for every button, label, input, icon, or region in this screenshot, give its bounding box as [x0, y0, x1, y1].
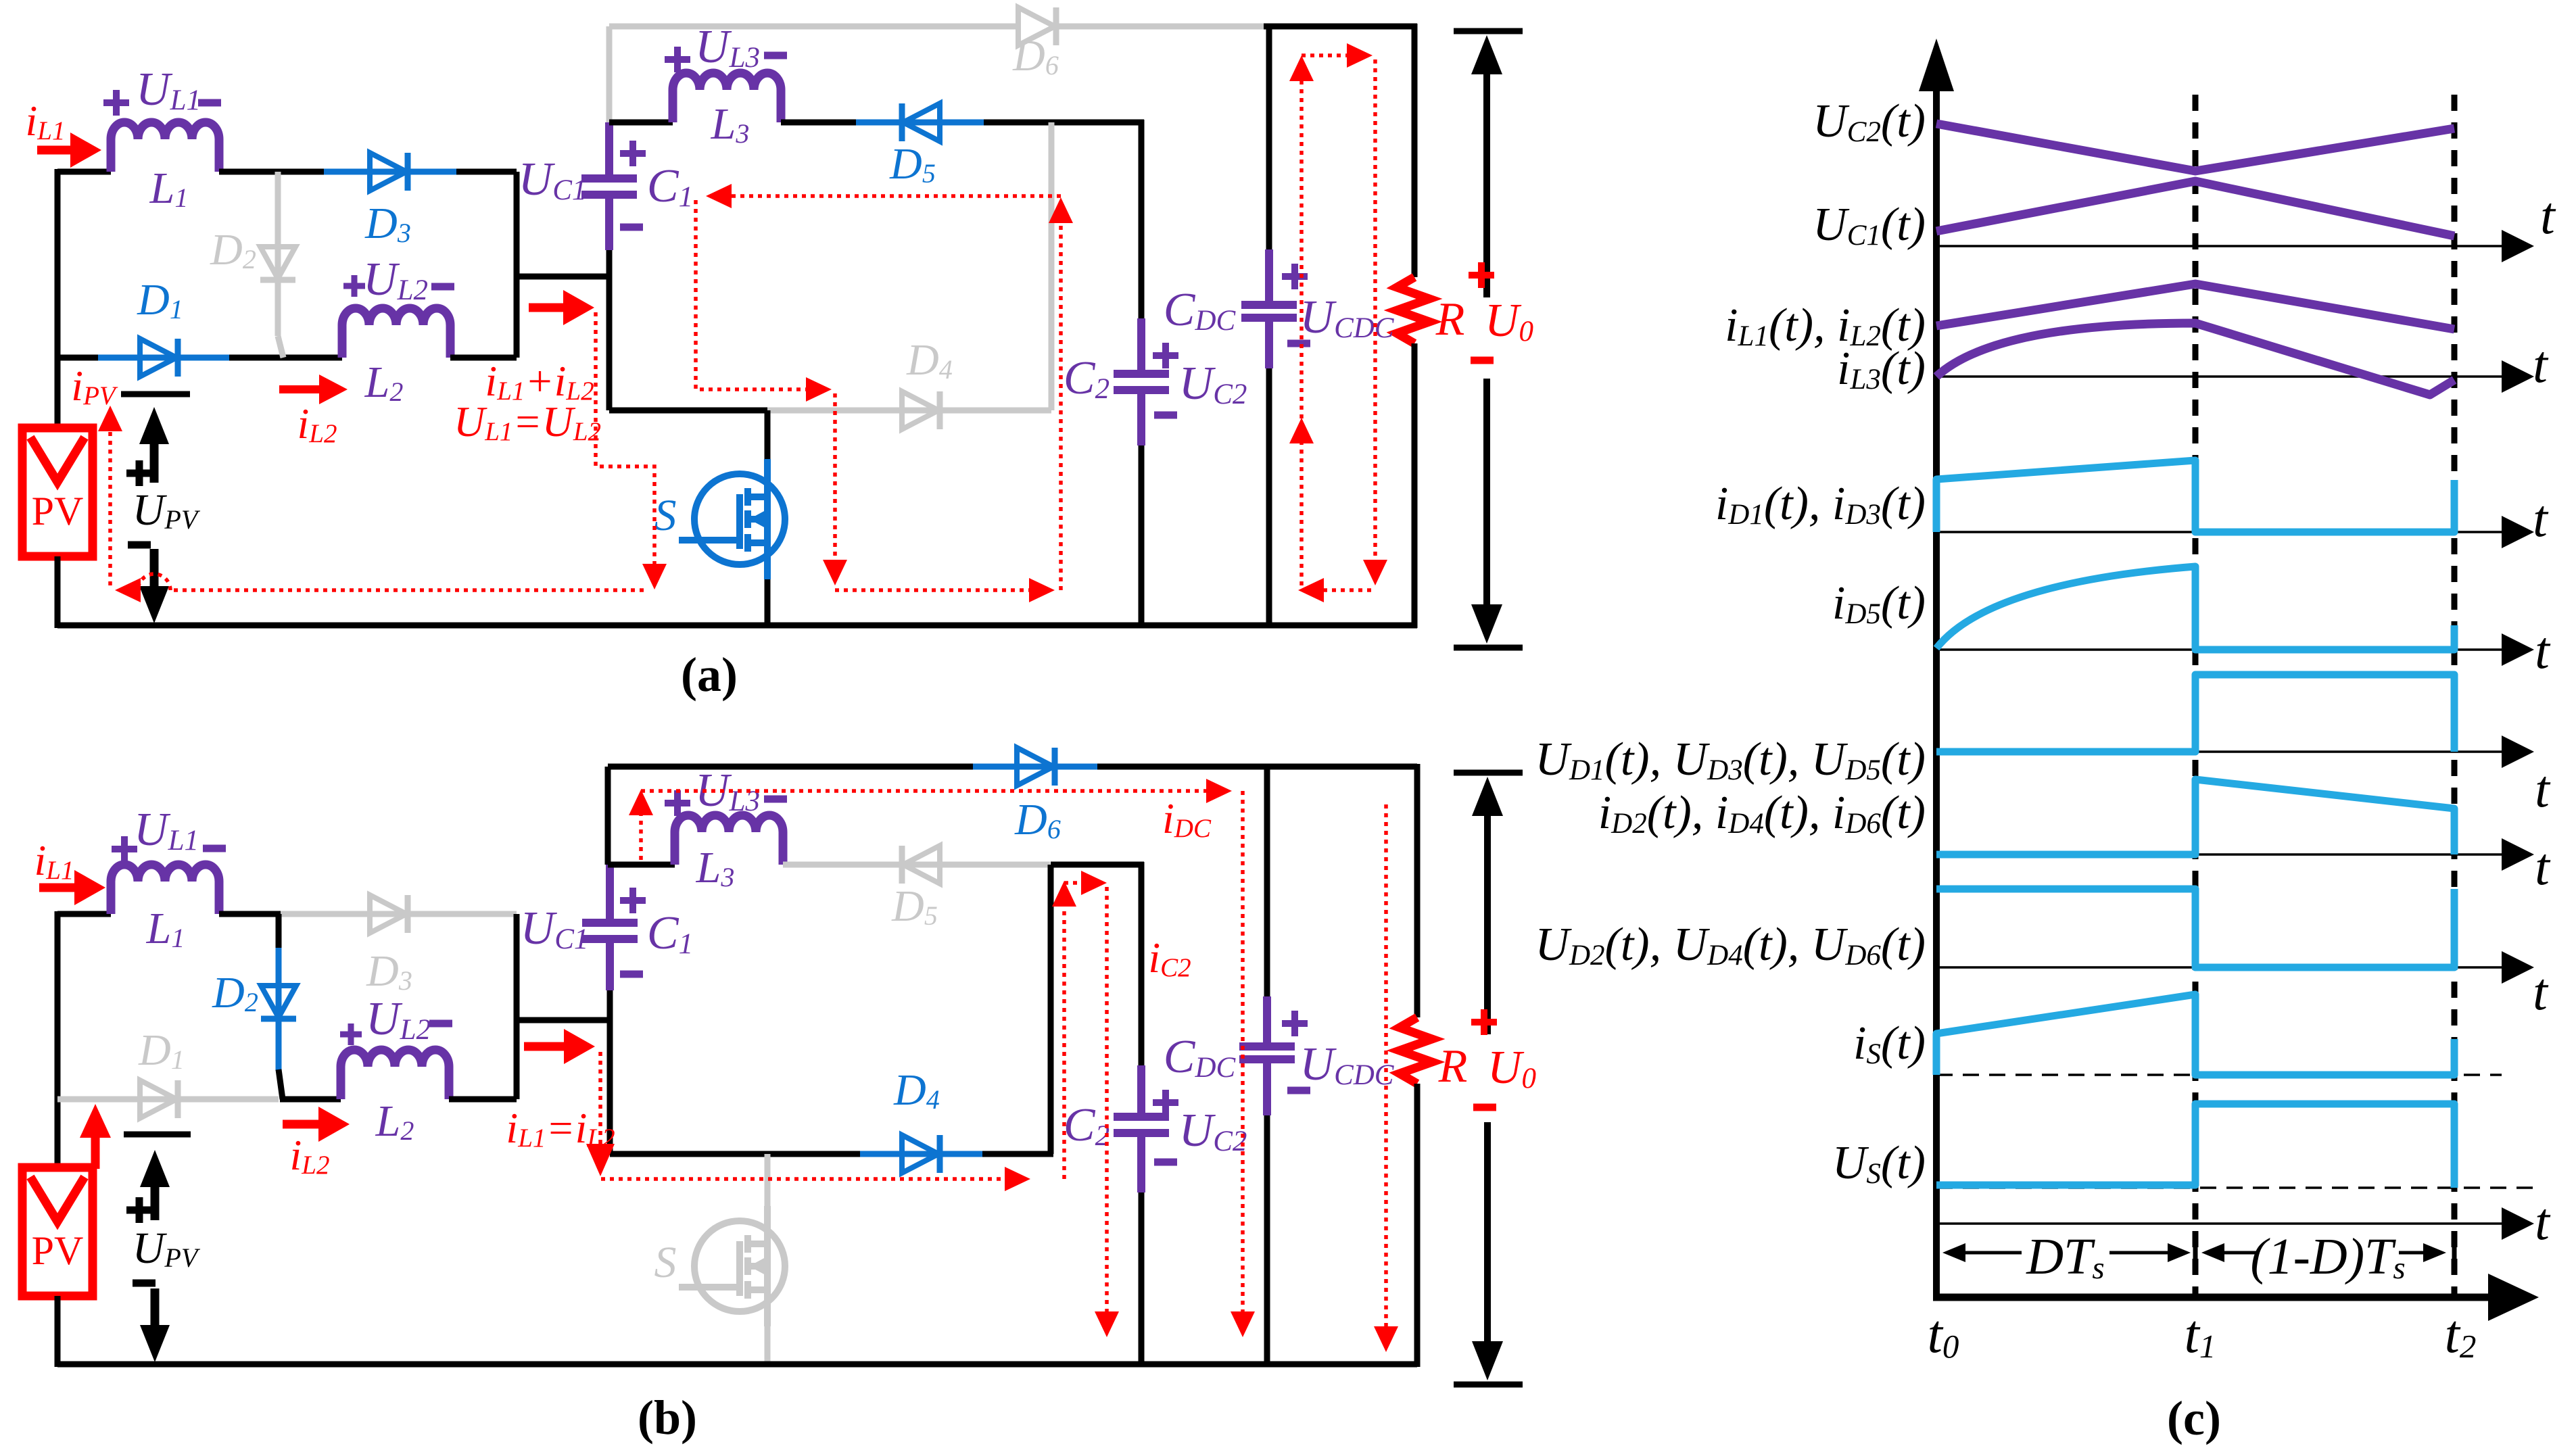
svg-text:(1-D)Ts​: (1-D)Ts​ [2250, 1228, 2405, 1286]
svg-text:iS​(t): iS​(t) [1853, 1017, 1926, 1070]
svg-text:t: t [2535, 621, 2551, 679]
svg-text:(a): (a) [681, 648, 738, 702]
svg-text:t: t [2535, 837, 2551, 896]
svg-text:R: R [1438, 1040, 1468, 1092]
svg-text:t: t [2540, 186, 2556, 245]
svg-text:t: t [2535, 1192, 2551, 1251]
svg-text:t: t [2533, 962, 2549, 1021]
svg-text:t: t [2533, 489, 2549, 548]
svg-text:t: t [2533, 335, 2549, 393]
svg-text:PV: PV [32, 489, 84, 533]
svg-text:PV: PV [32, 1228, 84, 1273]
svg-text:S: S [654, 1238, 677, 1287]
svg-text:t: t [2535, 759, 2551, 818]
svg-text:(c): (c) [2167, 1391, 2221, 1445]
svg-text:R: R [1435, 293, 1465, 345]
svg-text:S: S [654, 491, 677, 540]
svg-text:(b): (b) [638, 1391, 697, 1445]
